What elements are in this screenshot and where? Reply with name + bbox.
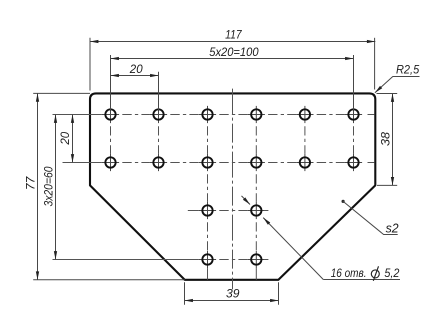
svg-text:39: 39 — [226, 286, 240, 300]
dimension 20 (top) — [111, 62, 159, 77]
svg-text:20: 20 — [58, 132, 72, 146]
column 3,4 tails to bottom edge — [208, 268, 257, 280]
column center lines between holes — [111, 123, 354, 251]
vertical axis center line — [232, 89, 234, 290]
dimension 39 — [185, 286, 279, 302]
row 1 center line — [53, 114, 375, 116]
row 4 center line + 3x20=60 extension — [53, 259, 269, 261]
svg-text:5x20=100: 5x20=100 — [209, 45, 258, 59]
hole center marks (crosses) — [102, 106, 362, 268]
svg-text:s2: s2 — [386, 220, 400, 235]
svg-text:5,2: 5,2 — [384, 266, 399, 280]
leader 16 holes dia 5,2 — [242, 196, 401, 281]
svg-text:38: 38 — [379, 132, 393, 146]
leader R2,5 (corner radius) — [374, 63, 420, 94]
svg-text:77: 77 — [24, 176, 38, 191]
extension lines — [33, 38, 397, 305]
dimension 5x20=100 — [111, 45, 354, 60]
row 3 center line — [188, 210, 269, 212]
svg-text:16 отв.: 16 отв. — [331, 266, 367, 280]
dimension 3x20=60 — [41, 115, 57, 260]
holes: 16 circles, diameter 5,2 — [105, 109, 358, 264]
leader s2 (sheet thickness) — [342, 200, 400, 236]
row 2 center line — [63, 162, 375, 164]
svg-text:20: 20 — [129, 62, 143, 76]
diameter symbol — [371, 270, 379, 278]
svg-text:R2,5: R2,5 — [396, 63, 419, 77]
dimension 117 — [90, 28, 375, 43]
dimension 38 — [379, 94, 394, 186]
svg-text:3x20=60: 3x20=60 — [41, 166, 55, 206]
svg-text:117: 117 — [225, 28, 242, 42]
dimension 20 (left) — [58, 115, 74, 163]
dimension 77 — [24, 93, 39, 279]
plate outline — [90, 93, 375, 279]
